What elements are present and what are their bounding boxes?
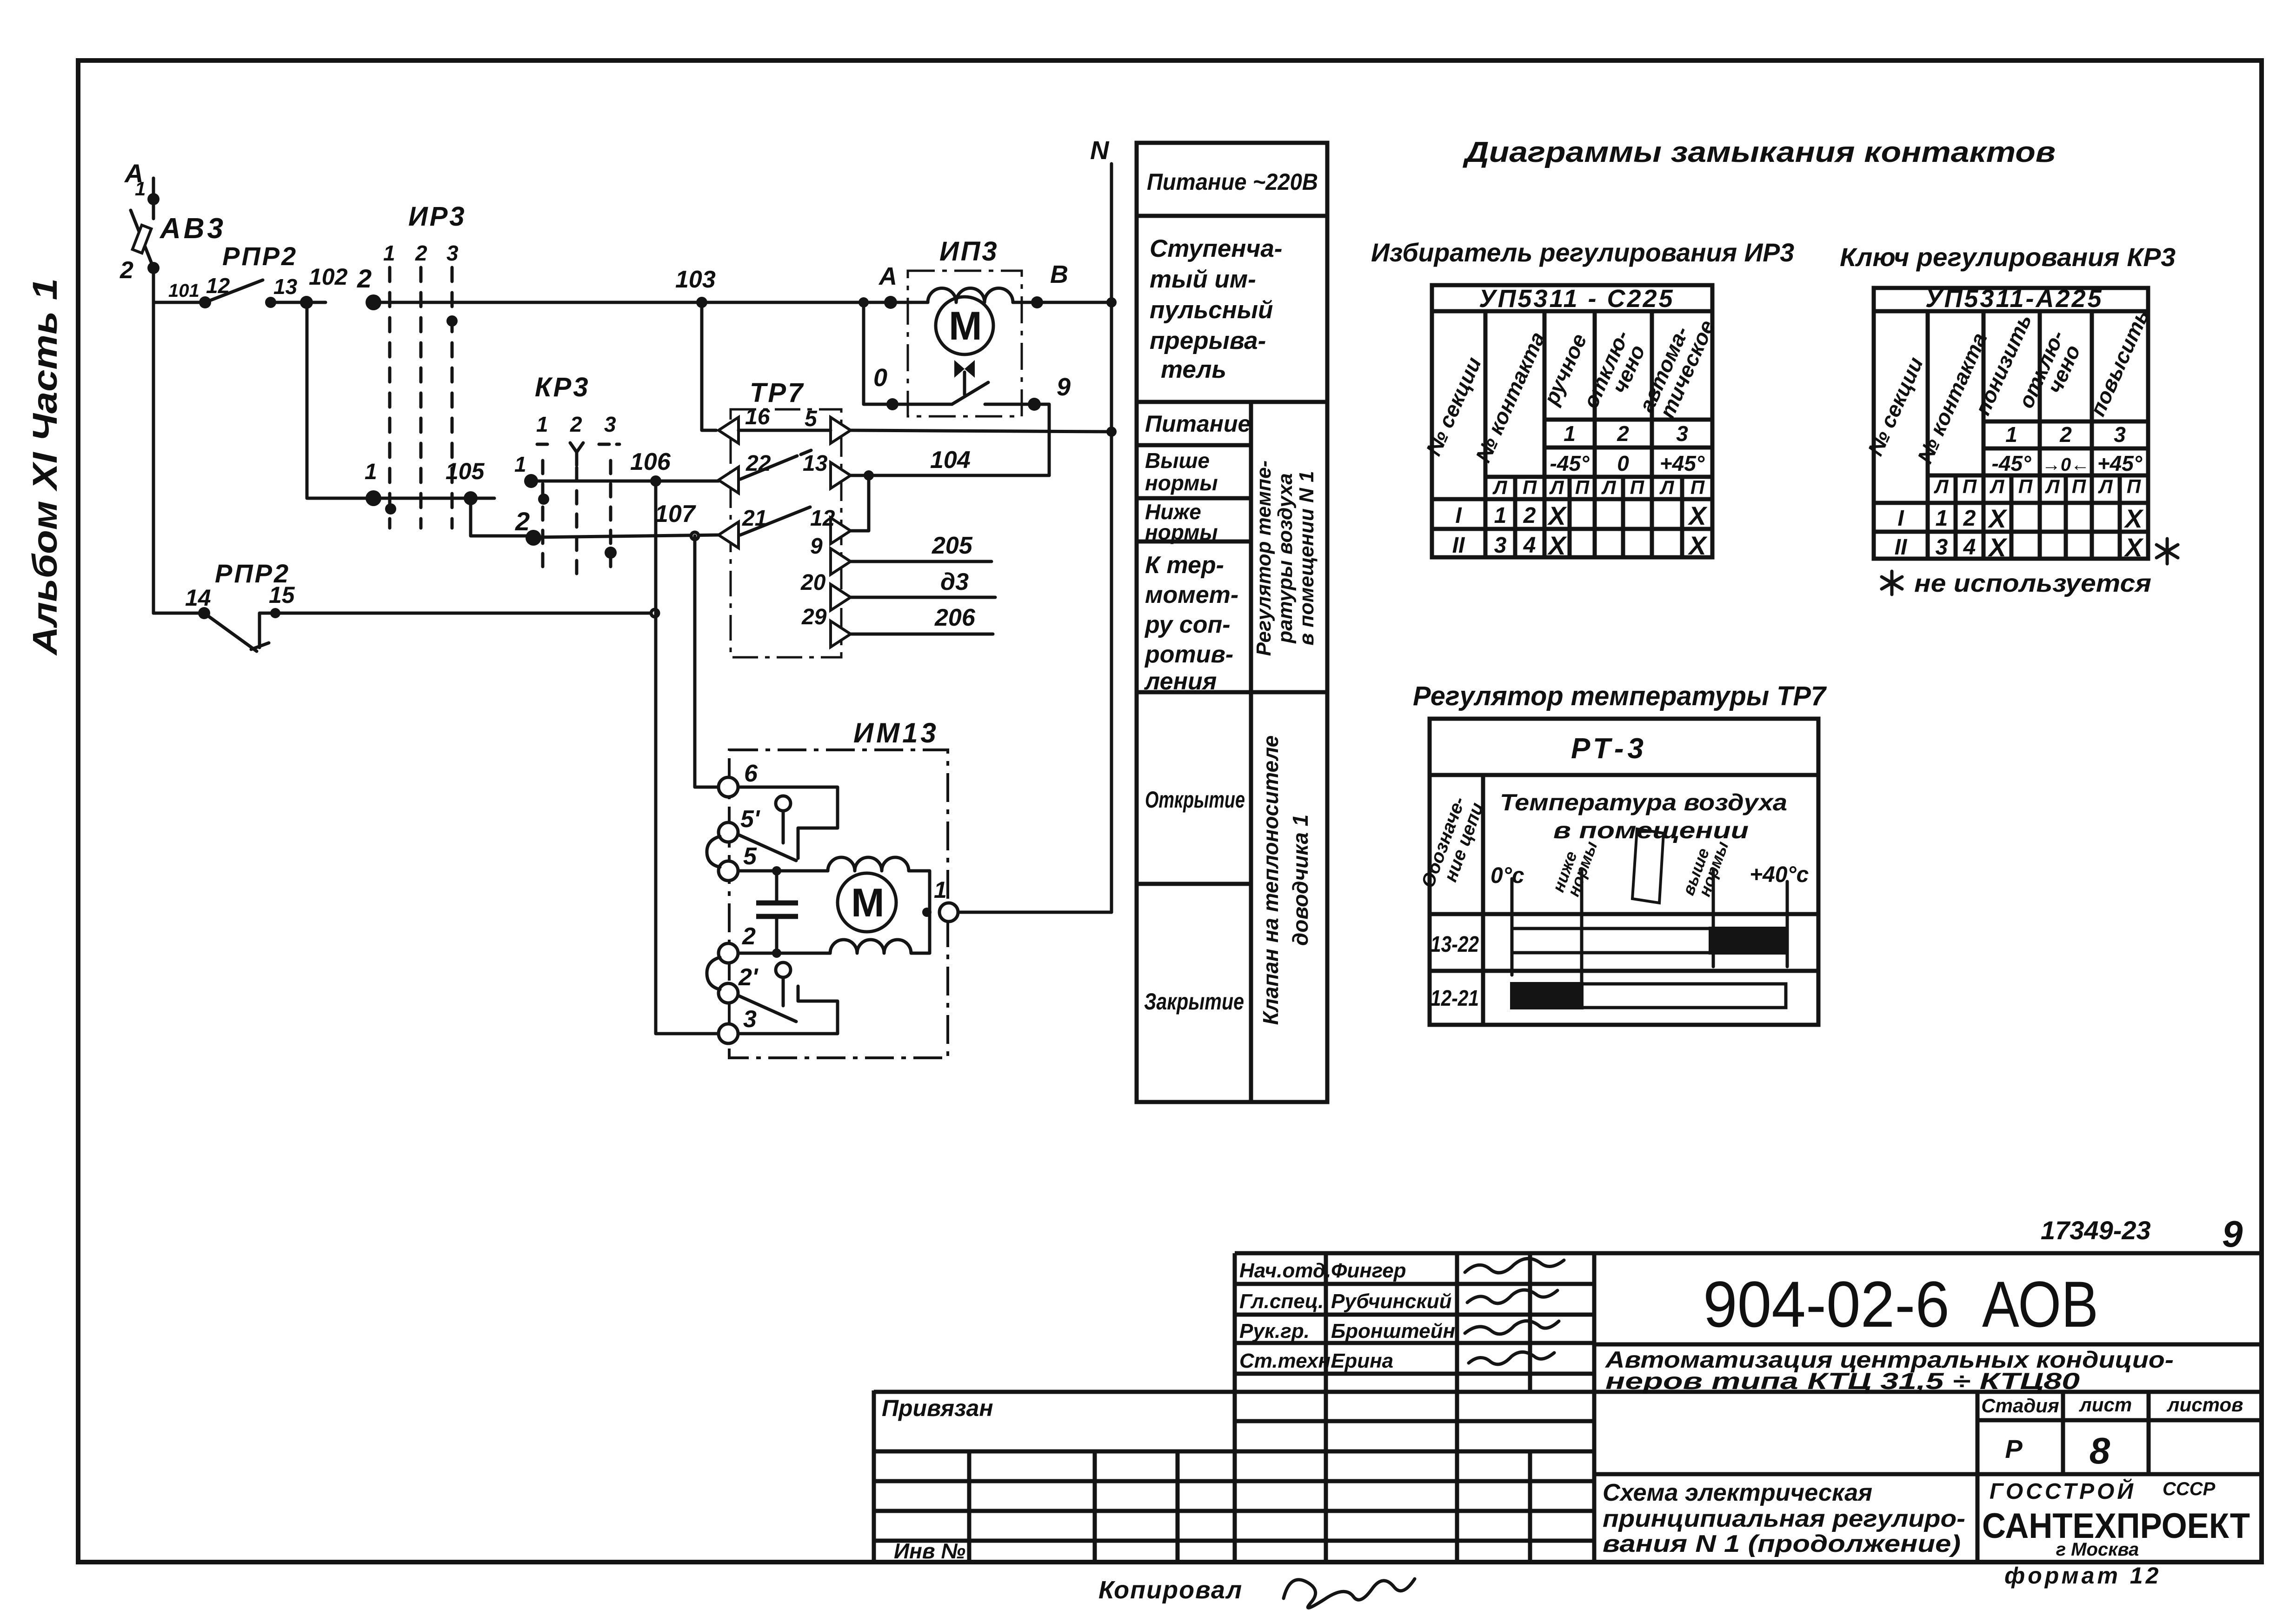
svg-text:Копировал: Копировал (1098, 1576, 1243, 1604)
table РТ-3 grid (1430, 719, 1818, 1025)
breaker АВ3 (120, 159, 226, 284)
selector ИР3 (383, 201, 466, 528)
svg-text:101: 101 (168, 281, 200, 301)
svg-text:3: 3 (1494, 533, 1507, 558)
svg-text:20: 20 (800, 570, 826, 595)
legend ниже нормы (1145, 500, 1218, 544)
svg-text:СССР: СССР (2163, 1479, 2216, 1499)
ИР3 contact mark col3 (446, 315, 458, 327)
wire 2 to motor (738, 949, 830, 958)
svg-text:13: 13 (273, 274, 298, 299)
svg-text:Ключ регулирования КР3: Ключ регулирования КР3 (1840, 242, 2176, 272)
svg-text:I: I (1455, 503, 1462, 528)
копировал (1098, 1576, 1415, 1608)
svg-text:лист: лист (2079, 1394, 2132, 1416)
svg-text:N: N (1090, 135, 1110, 165)
svg-text:3: 3 (743, 1006, 757, 1033)
svg-text:Л: Л (1492, 476, 1508, 498)
svg-text:П: П (2072, 475, 2086, 497)
svg-text:Питание: Питание (1145, 411, 1251, 437)
terminal 5 (719, 843, 757, 881)
svg-text:2: 2 (120, 257, 133, 284)
winding ИП3 (928, 288, 1013, 302)
svg-text:г Москва: г Москва (2056, 1539, 2139, 1560)
svg-text:2: 2 (1523, 503, 1536, 528)
обозначение цепи (1418, 794, 1488, 890)
svg-text:листов: листов (2167, 1394, 2243, 1416)
svg-text:17349-23: 17349-23 (2041, 1216, 2151, 1245)
node 102 (300, 264, 348, 309)
svg-text:9: 9 (810, 534, 823, 559)
limit switch blade 5' (738, 796, 796, 861)
svg-text:вания N 1 (продолжение): вания N 1 (продолжение) (1603, 1530, 1961, 1557)
ИР3 row 2 node (357, 264, 381, 310)
svg-text:Ст.техн.: Ст.техн. (1239, 1349, 1336, 1372)
svg-text:Ерина: Ерина (1331, 1349, 1393, 1372)
svg-text:-45°: -45° (1550, 451, 1590, 475)
svg-text:Рук.гр.: Рук.гр. (1239, 1320, 1310, 1343)
jumper 5'-5 (707, 836, 720, 867)
pin 1 ИМ13 (922, 877, 958, 922)
terminal 3 (719, 1006, 757, 1043)
node 1 (147, 193, 160, 205)
svg-text:Открытие: Открытие (1145, 787, 1245, 813)
svg-text:13: 13 (803, 451, 828, 476)
svg-text:X: X (2123, 504, 2144, 533)
wire 12 up to 104 (851, 475, 869, 531)
svg-text:Гл.спец.: Гл.спец. (1239, 1290, 1324, 1313)
terminal 2 (719, 923, 756, 963)
svg-text:X: X (1547, 531, 1567, 560)
svg-text:2: 2 (742, 923, 756, 950)
table С225 Л П row (1492, 476, 1705, 498)
table А225 row II (1895, 533, 2144, 562)
svg-text:205: 205 (932, 532, 973, 559)
svg-text:доводчика 1: доводчика 1 (1288, 815, 1312, 946)
svg-text:6: 6 (744, 760, 758, 787)
table А225 Л П row (1934, 475, 2141, 497)
svg-text:М: М (851, 881, 885, 925)
junction РПР2 to 106 wire (651, 609, 659, 617)
svg-text:2: 2 (2059, 422, 2072, 447)
wire д3 (851, 568, 995, 597)
svg-text:Бронштейн: Бронштейн (1331, 1320, 1455, 1343)
project name (1604, 1347, 2174, 1394)
svg-text:прерыва-: прерыва- (1150, 327, 1266, 354)
svg-text:103: 103 (675, 266, 716, 293)
svg-text:X: X (1987, 504, 2008, 533)
svg-text:Л: Л (1549, 476, 1564, 498)
svg-text:5: 5 (805, 407, 818, 431)
svg-text:принципиальная регулиро-: принципиальная регулиро- (1603, 1505, 1965, 1532)
svg-text:904-02-6: 904-02-6 (1703, 1268, 1950, 1341)
terminal 2' (719, 964, 759, 1003)
contact pin 13 (803, 451, 851, 488)
wire pin1 to N (958, 911, 1111, 914)
blade 21-12 (740, 507, 810, 535)
fixed contact bracket 6 (738, 787, 838, 858)
svg-text:Л: Л (1659, 476, 1675, 498)
svg-text:2: 2 (515, 507, 530, 536)
svg-text:9: 9 (2222, 1213, 2243, 1255)
svg-text:+45°: +45° (1660, 451, 1705, 475)
стадия values (2005, 1430, 2110, 1471)
svg-text:ТР7: ТР7 (750, 378, 805, 408)
svg-text:д3: д3 (940, 568, 969, 595)
wire 107 down to ИМ13 terminal 6 (695, 536, 720, 787)
ИР3 row 1 node (365, 460, 471, 506)
contact pin 20 (800, 570, 851, 610)
svg-text:X: X (1987, 533, 2008, 562)
svg-text:1: 1 (135, 178, 146, 200)
legend прерыватель (1150, 235, 1282, 383)
svg-text:АВ3: АВ3 (159, 213, 226, 245)
cam switch ИП3 (898, 360, 1034, 404)
svg-text:0°с: 0°с (1491, 863, 1524, 888)
jumper 2-2' (707, 957, 720, 989)
svg-text:1: 1 (536, 412, 548, 436)
table УП5311-С225 grid (1432, 285, 1712, 557)
svg-text:П: П (2018, 475, 2033, 497)
svg-text:неров типа КТЦ 31,5 ÷ КТЦ80: неров типа КТЦ 31,5 ÷ КТЦ80 (1605, 1368, 2080, 1394)
terminal 0 (873, 364, 898, 410)
svg-text:16: 16 (745, 405, 770, 429)
contact pin 9 (810, 534, 851, 575)
svg-text:2: 2 (1963, 506, 1976, 531)
legend регулятор температуры (1252, 461, 1318, 656)
terminal B (1031, 261, 1068, 308)
svg-text:I: I (1897, 506, 1904, 531)
table УП5311-А225 grid (1874, 288, 2148, 559)
svg-text:П: П (1963, 475, 1977, 497)
table А225 row I (1897, 504, 2144, 533)
svg-text:1: 1 (934, 877, 947, 903)
svg-text:Температура воздуха: Температура воздуха (1500, 789, 1787, 815)
terminal 9 (1028, 373, 1071, 411)
wire 5 to motor (738, 866, 828, 875)
svg-text:Клапан на теплоносителе: Клапан на теплоносителе (1258, 735, 1283, 1025)
svg-text:1: 1 (365, 460, 377, 484)
svg-text:Р: Р (2005, 1434, 2023, 1463)
relay contact РПР2 14-15 (153, 559, 651, 651)
contact pin 16 (719, 405, 770, 443)
legend клапан (1258, 735, 1312, 1025)
svg-text:Питание ~220В: Питание ~220В (1147, 169, 1318, 195)
svg-text:тый им-: тый им- (1150, 266, 1256, 293)
svg-text:2: 2 (570, 412, 582, 436)
fixed contact bracket 3 (738, 986, 838, 1034)
svg-text:ИМ13: ИМ13 (853, 717, 939, 748)
wire row2 / net to ИП3 (373, 301, 928, 304)
svg-text:ления: ления (1144, 668, 1217, 695)
table А225 position row (1992, 422, 2143, 475)
wire 106 down to ИМ13 terminal 3 (656, 481, 720, 1034)
approval rows (1239, 1259, 1455, 1372)
svg-text:12: 12 (810, 506, 835, 531)
svg-text:107: 107 (655, 501, 696, 528)
svg-text:Ступенча-: Ступенча- (1150, 235, 1282, 262)
svg-text:29: 29 (801, 605, 827, 629)
svg-text:пульсный: пульсный (1150, 296, 1273, 324)
selector КР3 (535, 372, 619, 577)
svg-text:УП5311-А225: УП5311-А225 (1925, 285, 2103, 313)
contact pin 5 (805, 407, 851, 443)
table С225 position row (1550, 421, 1705, 475)
svg-text:РТ-3: РТ-3 (1571, 733, 1647, 765)
стадия лист листов (1981, 1394, 2243, 1416)
wire 9 down to 104 (1034, 404, 1049, 475)
sheet title (1603, 1479, 1965, 1557)
svg-text:ротив-: ротив- (1144, 641, 1233, 668)
svg-text:1: 1 (383, 241, 395, 265)
terminal A (878, 262, 897, 309)
svg-text:2': 2' (738, 964, 759, 991)
svg-text:ру соп-: ру соп- (1144, 611, 1231, 638)
table С225 row I (1455, 501, 1708, 530)
svg-text:Альбом XI Часть 1: Альбом XI Часть 1 (26, 278, 64, 656)
organization (1982, 1478, 2250, 1560)
svg-text:Регулятор темпе-: Регулятор темпе- (1252, 461, 1275, 656)
contact pin 29 (801, 605, 851, 647)
svg-text:14: 14 (185, 585, 211, 611)
svg-text:102: 102 (309, 264, 348, 290)
svg-text:2: 2 (357, 264, 372, 293)
motor ИМ13 (838, 873, 896, 932)
wire 103 to ТР7 contact 16 (702, 302, 716, 430)
svg-text:3: 3 (1936, 535, 1948, 560)
svg-text:X: X (1687, 531, 1708, 560)
sheet number note (2041, 1213, 2243, 1255)
svg-text:105: 105 (446, 458, 485, 484)
svg-text:Схема электрическая: Схема электрическая (1603, 1479, 1872, 1506)
title block grid (874, 1253, 2262, 1562)
svg-text:4: 4 (1523, 533, 1536, 558)
svg-text:в помещении N 1: в помещении N 1 (1295, 471, 1318, 645)
svg-text:106: 106 (630, 448, 671, 475)
relay contact РПР2 12-13 (199, 241, 306, 308)
svg-text:Инв №: Инв № (894, 1539, 965, 1563)
limit switch blade 2' (738, 962, 796, 1022)
capacitor (756, 871, 798, 953)
node 103 (675, 266, 716, 308)
svg-text:+40°с: +40°с (1750, 862, 1809, 887)
svg-text:не используется: не используется (1914, 569, 2151, 597)
svg-text:формат 12: формат 12 (2004, 1563, 2161, 1589)
svg-text:П: П (1690, 476, 1705, 498)
svg-text:В: В (1050, 261, 1068, 288)
svg-text:1: 1 (1936, 506, 1948, 531)
svg-text:ГОССТРОЙ: ГОССТРОЙ (1990, 1478, 2136, 1504)
scale ticks (1512, 870, 1787, 992)
svg-text:Л: Л (1990, 475, 2005, 497)
svg-text:КР3: КР3 (535, 372, 590, 402)
svg-text:нормы: нормы (1145, 520, 1218, 544)
wire B to N (1013, 301, 1111, 304)
wire 105 to КР3 row2 (471, 498, 533, 536)
svg-text:ратуры воздуха: ратуры воздуха (1274, 473, 1297, 643)
svg-text:X: X (1547, 501, 1567, 530)
wire 5 to N (851, 430, 1111, 432)
svg-text:ИП3: ИП3 (939, 236, 999, 267)
svg-text:-45°: -45° (1992, 451, 2031, 475)
link 16-5 (739, 429, 831, 432)
svg-text:1: 1 (2005, 422, 2017, 447)
note не используется (1882, 571, 1902, 595)
svg-text:0: 0 (873, 364, 887, 392)
svg-text:12-21: 12-21 (1431, 986, 1479, 1011)
svg-text:Регулятор температуры ТР7: Регулятор температуры ТР7 (1413, 681, 1827, 711)
svg-text:4: 4 (1963, 535, 1976, 560)
terminal 5' (719, 806, 760, 842)
svg-text:П: П (1630, 476, 1644, 498)
terminal 6 (719, 760, 758, 797)
node 107 (655, 501, 699, 540)
svg-text:Л: Л (2098, 475, 2113, 497)
svg-text:П: П (1523, 476, 1537, 498)
svg-text:тель: тель (1161, 356, 1226, 383)
svg-text:3: 3 (446, 241, 459, 265)
motor ИП3 (936, 297, 993, 354)
node 2 (147, 262, 160, 274)
svg-text:нормы: нормы (1145, 471, 1218, 495)
document code (1703, 1268, 2098, 1341)
contact pin 22 (719, 451, 771, 493)
svg-text:5: 5 (743, 843, 757, 870)
album side note (26, 278, 64, 656)
legend выше нормы (1145, 448, 1218, 495)
svg-text:+45°: +45° (2097, 451, 2143, 475)
ИР3 contact mark col1 (385, 503, 396, 514)
svg-text:X: X (2123, 533, 2144, 562)
svg-text:К тер-: К тер- (1145, 552, 1224, 579)
svg-text:Стадия: Стадия (1981, 1395, 2059, 1416)
svg-text:Л: Л (1601, 476, 1617, 498)
svg-text:13-22: 13-22 (1431, 932, 1479, 957)
branch A to 0 (859, 297, 892, 404)
svg-text:ИР3: ИР3 (408, 201, 466, 232)
КР3 row 2 (515, 507, 719, 559)
svg-text:А: А (878, 262, 897, 290)
wire 206 (851, 604, 993, 634)
svg-text:Избиратель регулирования ИР3: Избиратель регулирования ИР3 (1371, 238, 1794, 267)
svg-text:Рубчинский: Рубчинский (1331, 1290, 1452, 1313)
actuator ИМ13 (729, 717, 948, 1058)
svg-text:3: 3 (1676, 421, 1688, 446)
svg-text:Выше: Выше (1145, 448, 1210, 473)
svg-text:104: 104 (930, 447, 971, 474)
circuit legend table (1137, 143, 1327, 1102)
node 105 (446, 458, 494, 505)
wire 102 to row1 (307, 302, 373, 498)
svg-text:9: 9 (1057, 373, 1071, 401)
svg-text:8: 8 (2090, 1430, 2110, 1471)
svg-text:II: II (1895, 535, 1908, 560)
node 106 (630, 448, 671, 487)
legend термометр (1144, 552, 1238, 695)
svg-text:12: 12 (206, 274, 230, 298)
svg-text:3: 3 (604, 412, 616, 436)
scale выше нормы (1678, 839, 1732, 899)
svg-text:Привязан: Привязан (882, 1395, 993, 1421)
wire 205 (851, 532, 992, 561)
svg-text:0: 0 (1617, 451, 1629, 475)
svg-text:2: 2 (415, 241, 427, 265)
scale ниже нормы (1549, 839, 1601, 899)
svg-text:1: 1 (514, 452, 526, 476)
bus N (1090, 135, 1117, 912)
row 13-22 (1431, 927, 1788, 957)
svg-text:АОВ: АОВ (1982, 1268, 2098, 1341)
relay ТР7 (731, 378, 841, 657)
svg-text:1: 1 (1494, 503, 1507, 528)
svg-text:Нач.отд.: Нач.отд. (1239, 1259, 1331, 1282)
svg-text:Л: Л (1934, 475, 1949, 497)
svg-text:Закрытие: Закрытие (1144, 989, 1244, 1015)
svg-text:Диаграммы замыкания контакто: Диаграммы замыкания контактов (1462, 136, 2056, 168)
КР3 row 1 (514, 452, 719, 505)
svg-text:М: М (949, 304, 982, 348)
lower winding ИМ13 (830, 912, 930, 953)
svg-text:УП5311 - С225: УП5311 - С225 (1479, 285, 1675, 313)
signatures (1465, 1258, 1564, 1364)
contact pin 12 (810, 506, 851, 544)
температура воздуха (1500, 789, 1787, 843)
svg-text:3: 3 (2114, 422, 2126, 447)
svg-text:П: П (2127, 475, 2141, 497)
svg-text:П: П (1575, 476, 1590, 498)
svg-text:5': 5' (740, 806, 760, 833)
svg-text:1: 1 (1564, 421, 1576, 446)
contact pin 21 (719, 506, 767, 548)
svg-text:2: 2 (1617, 421, 1629, 446)
upper winding ИМ13 (828, 857, 930, 912)
svg-text:X: X (1687, 501, 1708, 530)
setpoint parallelogram (1632, 829, 1664, 903)
svg-text:Л: Л (2045, 475, 2060, 497)
svg-text:РПР2: РПР2 (222, 241, 298, 271)
table А225 rotated headers (1863, 306, 2154, 467)
svg-text:РПР2: РПР2 (215, 559, 290, 588)
svg-text:→0←: →0← (2042, 454, 2090, 475)
interrupter ИП3 (908, 236, 1022, 416)
table С225 row II (1452, 531, 1708, 560)
blade 22-13 (740, 450, 811, 479)
svg-text:Фингер: Фингер (1331, 1259, 1406, 1282)
svg-text:момет-: момет- (1145, 581, 1238, 608)
wire 101 (153, 268, 205, 613)
table С225 rotated headers (1421, 316, 1719, 466)
star mark (2156, 539, 2178, 564)
svg-text:II: II (1452, 533, 1465, 558)
row 12-21 (1431, 982, 1786, 1011)
svg-text:206: 206 (934, 604, 976, 631)
wire 104 (851, 447, 1049, 481)
